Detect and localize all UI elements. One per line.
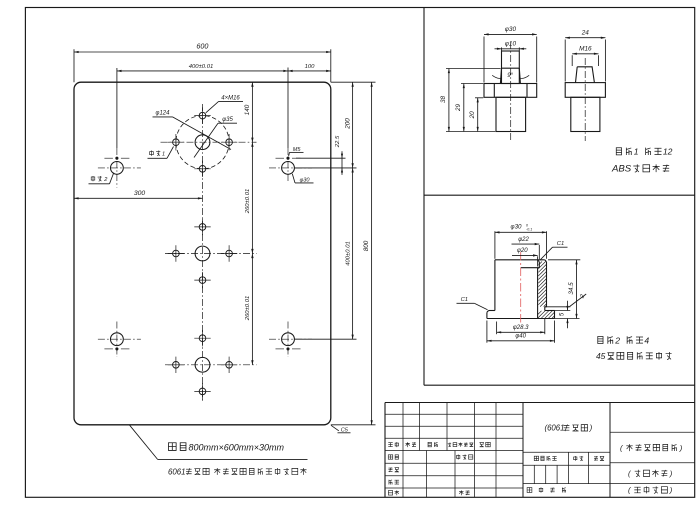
svg-text:45: 45	[596, 351, 606, 361]
bolt-hole cluster 1 (top)	[161, 107, 257, 177]
svg-text:φ30: φ30	[511, 224, 522, 231]
svg-text:400±0.01: 400±0.01	[189, 64, 214, 70]
svg-text:): )	[669, 486, 673, 495]
part1 front outline	[484, 51, 537, 132]
dim 400±0.01 top	[117, 64, 288, 72]
svg-text:24: 24	[581, 30, 590, 37]
corner hole upper-right	[269, 148, 312, 181]
dim phi20	[512, 248, 538, 257]
svg-text:6061: 6061	[168, 467, 186, 476]
part2 ext lines	[487, 231, 580, 343]
part2 red centerline	[520, 252, 522, 325]
svg-text:φ22: φ22	[518, 237, 529, 243]
dim 300	[74, 190, 203, 199]
svg-text:29: 29	[455, 104, 462, 113]
part1 side centerline	[584, 58, 586, 141]
svg-text:φ10: φ10	[505, 40, 517, 47]
title sheet count row	[527, 487, 566, 492]
panel divider vertical	[423, 8, 425, 386]
svg-text:φ124: φ124	[156, 110, 171, 116]
bolt-hole cluster 3 (bottom)	[165, 330, 257, 400]
bolt-hole cluster 2 (middle)	[165, 219, 257, 289]
svg-text:38: 38	[440, 96, 447, 104]
svg-text:1: 1	[634, 147, 639, 157]
svg-text:4×M16: 4×M16	[221, 95, 240, 101]
svg-text:100: 100	[305, 64, 316, 70]
dim M16	[572, 46, 598, 66]
label 9 degrees	[492, 72, 529, 79]
label 4xM16	[206, 95, 243, 113]
svg-text:C1: C1	[557, 241, 564, 247]
svg-text:300: 300	[134, 190, 146, 197]
dim phi10 part1	[495, 40, 527, 50]
svg-text:200: 200	[344, 118, 351, 130]
panel divider horizontal lower	[424, 384, 695, 386]
svg-text:): )	[669, 469, 673, 478]
dim 5	[560, 301, 569, 328]
corner hole lower-left	[98, 322, 141, 358]
svg-text:φ35: φ35	[222, 117, 233, 123]
label phi35	[194, 117, 237, 157]
svg-text:φ20: φ20	[517, 248, 528, 254]
dim 200	[344, 82, 353, 168]
part1 front centerline	[510, 42, 512, 141]
svg-text:C5: C5	[341, 427, 349, 433]
svg-text:M16: M16	[579, 46, 592, 53]
svg-text:φ40: φ40	[515, 334, 526, 340]
note part2 qty	[598, 335, 650, 345]
note part1 qty	[616, 147, 672, 157]
panel divider horizontal upper	[424, 194, 695, 196]
svg-text:φ30: φ30	[505, 26, 517, 33]
svg-text:34.5: 34.5	[568, 282, 575, 295]
svg-text:20: 20	[469, 111, 476, 120]
label phi124	[153, 110, 232, 149]
svg-text:ABS: ABS	[611, 164, 632, 175]
svg-text:800mm×600mm×30mm: 800mm×600mm×30mm	[189, 442, 285, 452]
title right grid	[610, 432, 695, 483]
title block left grid	[385, 403, 523, 498]
label M5	[289, 147, 304, 156]
title part name	[620, 443, 683, 452]
dim 260±0.01 upper	[245, 142, 254, 253]
dim 800	[363, 82, 373, 425]
title drawing code	[628, 469, 673, 478]
dim 22.5	[335, 135, 343, 175]
dim 24	[565, 30, 605, 82]
corner hole lower-right	[269, 322, 312, 358]
svg-text:φ28.3: φ28.3	[513, 325, 529, 331]
plate outline	[74, 82, 331, 425]
title block center grid	[523, 452, 610, 483]
title stage row	[534, 456, 604, 461]
svg-text:C1: C1	[461, 297, 468, 303]
label C1 right	[540, 241, 568, 260]
note ABS material	[611, 164, 669, 175]
dim 600	[74, 42, 331, 53]
dim 29	[455, 84, 465, 132]
plate vertical centerline	[202, 104, 204, 401]
title projection symbol	[628, 486, 673, 495]
svg-text:260±0.01: 260±0.01	[245, 296, 251, 322]
dim 260±0.01 lower	[245, 254, 254, 365]
extension lines right	[294, 82, 376, 425]
svg-text:600: 600	[196, 42, 208, 51]
svg-text:12: 12	[663, 147, 673, 157]
svg-text:4: 4	[644, 335, 649, 345]
material note line 2	[168, 467, 307, 476]
svg-text:22.5: 22.5	[335, 135, 341, 148]
svg-text:): )	[679, 443, 683, 452]
svg-text:(6061: (6061	[545, 424, 565, 433]
svg-text:140: 140	[244, 104, 251, 115]
chamfer note C5	[331, 425, 351, 433]
dim phi22	[512, 237, 540, 245]
svg-text:260±0.01: 260±0.01	[245, 189, 251, 215]
part2 hatching	[538, 262, 554, 319]
part1 side outline	[565, 67, 605, 132]
dim phi30 tol	[495, 224, 547, 234]
svg-text:800: 800	[363, 240, 370, 251]
dim 38	[440, 69, 450, 132]
dim 140	[244, 82, 254, 142]
part2 outline	[487, 260, 555, 319]
svg-text:-0.1: -0.1	[526, 228, 532, 232]
extension lines top	[74, 49, 331, 148]
dim 34.5	[568, 260, 578, 319]
note 45 steel	[596, 351, 672, 361]
label C1 left	[457, 297, 488, 310]
corner hole upper-left	[98, 148, 141, 188]
label datum 2	[89, 173, 114, 184]
svg-text:9°: 9°	[507, 72, 513, 79]
label datum 1	[148, 147, 174, 159]
dim 100	[288, 64, 331, 72]
title material cell	[545, 424, 593, 433]
dim 2 leader	[570, 293, 587, 306]
svg-text:): )	[589, 424, 593, 433]
dim phi40	[487, 334, 555, 342]
dim phi30 part1	[484, 26, 537, 82]
material note line 1	[130, 425, 308, 459]
svg-text:1: 1	[162, 152, 165, 158]
svg-text:2: 2	[614, 335, 620, 345]
title block outer	[385, 403, 695, 498]
dim 20	[469, 98, 479, 132]
title block left labels	[388, 442, 490, 495]
label phi30 hole	[292, 174, 313, 184]
part1 ext lines left	[446, 69, 501, 132]
dim 400±0.01 right	[345, 168, 353, 339]
dim phi28.3	[497, 325, 545, 333]
svg-text:400±0.01: 400±0.01	[345, 241, 351, 266]
